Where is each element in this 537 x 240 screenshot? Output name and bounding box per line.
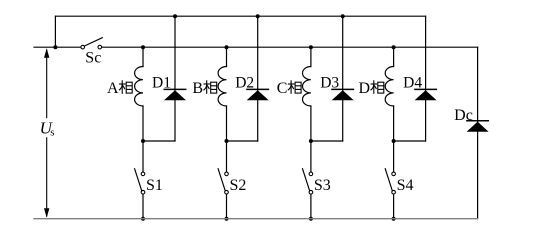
diode D2 [247, 16, 269, 141]
svg-text:s: s [50, 126, 54, 138]
node: junction of drop and main rail [53, 45, 57, 49]
wire: C phase bottom connector [311, 140, 343, 142]
inductor B-phase winding [218, 47, 226, 141]
wire: B phase bottom connector [227, 140, 258, 142]
node: C winding top on main rail [309, 45, 313, 49]
node: D2 on top rail [256, 14, 260, 18]
svg-text:Dc: Dc [454, 107, 473, 124]
label B相 [192, 80, 216, 97]
wire: top supply rail [55, 15, 425, 17]
node: S2 on bottom rail [225, 217, 229, 221]
svg-text:S2: S2 [230, 177, 247, 194]
svg-text:B: B [192, 80, 203, 97]
node: B winding top on main rail [225, 45, 229, 49]
svg-text:D2: D2 [235, 74, 254, 91]
svg-text:D4: D4 [403, 74, 422, 91]
node: D winding top on main rail [392, 45, 396, 49]
node: S4 on bottom rail [392, 217, 396, 221]
svg-text:Sc: Sc [85, 50, 101, 67]
svg-text:S1: S1 [146, 177, 163, 194]
inductor A-phase winding [135, 47, 143, 141]
label Us [40, 118, 55, 138]
switch S3 [303, 141, 313, 219]
svg-text:D1: D1 [152, 74, 171, 91]
diode D4 [415, 16, 437, 141]
wire: A phase bottom connector [143, 140, 175, 142]
wire: bottom return rail [34, 218, 478, 220]
diode D1 [164, 16, 186, 141]
switch Sc [81, 38, 102, 49]
node: C winding bottom [309, 139, 313, 143]
inductor D-phase winding [385, 47, 393, 141]
svg-text:D3: D3 [320, 74, 339, 91]
svg-text:S4: S4 [397, 177, 414, 194]
node: D3 on top rail [341, 14, 345, 18]
node: A winding top on main rail [141, 45, 145, 49]
node: D winding bottom [392, 139, 396, 143]
svg-text:S3: S3 [314, 177, 331, 194]
svg-text:C: C [277, 80, 288, 97]
label D相 [359, 80, 384, 97]
wire: main rail right segment [102, 46, 478, 48]
diode Dc [467, 121, 489, 132]
diode D3 [332, 16, 354, 141]
label C相 [277, 80, 301, 97]
svg-text:D: D [359, 80, 371, 97]
node: S3 on bottom rail [309, 217, 313, 221]
switch S2 [218, 141, 228, 219]
node: A winding bottom [141, 139, 145, 143]
label A相 [107, 80, 132, 97]
node: S1 on bottom rail [141, 217, 145, 221]
svg-text:A: A [107, 80, 119, 97]
node: B winding bottom [225, 139, 229, 143]
wire: main rail left segment [34, 46, 81, 48]
wire: right rail [477, 47, 479, 219]
inductor C-phase winding [302, 47, 310, 141]
wire: left vertical drop from top rail to main rail [54, 16, 56, 47]
wire: D phase bottom connector [394, 140, 426, 142]
node: D1 on top rail [173, 14, 177, 18]
voltage source arrow Us [44, 48, 49, 218]
switch S1 [135, 141, 145, 219]
switch S4 [385, 141, 395, 219]
